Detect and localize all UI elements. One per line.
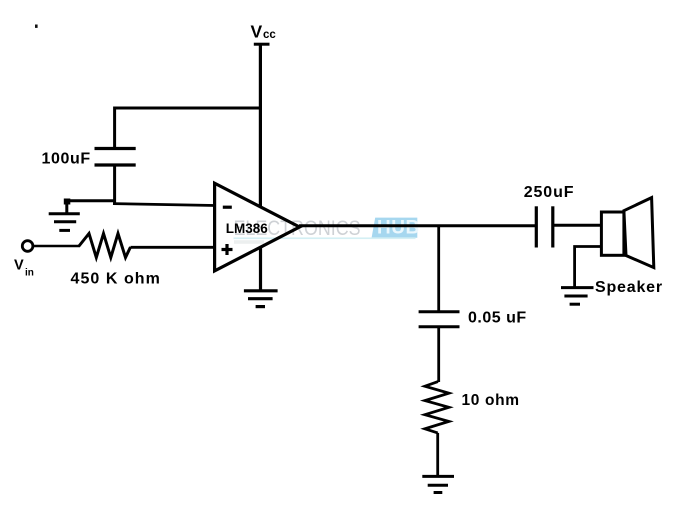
watermark ELECTRONICS HUB xyxy=(234,216,420,244)
input terminal Vin circle xyxy=(22,241,33,252)
wire input to R1 xyxy=(33,245,80,248)
capacitor C1 100uF xyxy=(95,149,136,166)
wire R1 to non-inverting input xyxy=(131,246,216,249)
capacitor C2 0.05uF xyxy=(419,312,460,327)
wire to ground G1 xyxy=(67,201,115,214)
wire C1 bottom lead xyxy=(113,165,116,205)
junction corner dot xyxy=(64,199,71,205)
power terminal Vcc bar xyxy=(254,43,270,46)
wire R2 to ground G3 xyxy=(436,433,439,477)
label Vcc xyxy=(251,22,277,42)
wire op-amp ground lead xyxy=(259,247,262,292)
minus sign inverting input xyxy=(223,206,232,209)
plus sign non-inverting input xyxy=(222,244,233,255)
capacitor C3 250uF xyxy=(536,206,553,247)
wire output node xyxy=(299,224,537,227)
resistor R1 450K zigzag xyxy=(79,234,131,258)
wire Vcc vertical xyxy=(259,44,262,207)
svg-text:LM386: LM386 xyxy=(226,221,269,236)
speaker LS1 xyxy=(601,198,653,268)
svg-text:0.05 uF: 0.05 uF xyxy=(468,310,527,327)
svg-text:V: V xyxy=(14,258,24,274)
svg-text:V: V xyxy=(251,22,263,42)
svg-text:250uF: 250uF xyxy=(524,184,575,201)
svg-text:450 K ohm: 450 K ohm xyxy=(71,271,161,288)
wire speaker return to ground G4 xyxy=(575,247,602,288)
ground G1 xyxy=(49,214,80,231)
wire output junction down to C2 xyxy=(437,226,440,312)
svg-text:HUB: HUB xyxy=(377,218,420,239)
stray ink dot xyxy=(35,25,38,28)
svg-text:cc: cc xyxy=(263,29,276,41)
wire C3 to speaker xyxy=(553,224,602,227)
ground G2 below op-amp xyxy=(244,291,278,307)
svg-text:100uF: 100uF xyxy=(42,150,91,167)
label Vin xyxy=(14,258,34,279)
ground G4 speaker xyxy=(561,288,594,305)
svg-text:Speaker: Speaker xyxy=(595,279,663,296)
wire inverting input xyxy=(113,204,216,206)
resistor R2 10 ohm zigzag xyxy=(425,382,449,433)
wire C2 to R2 xyxy=(437,327,440,382)
svg-text:in: in xyxy=(25,268,34,279)
svg-text:10 ohm: 10 ohm xyxy=(462,392,520,409)
wire C1 top to Vcc rail xyxy=(115,108,261,148)
op-amp U1 LM386 triangle xyxy=(215,183,300,271)
ground G3 bottom xyxy=(422,476,454,492)
